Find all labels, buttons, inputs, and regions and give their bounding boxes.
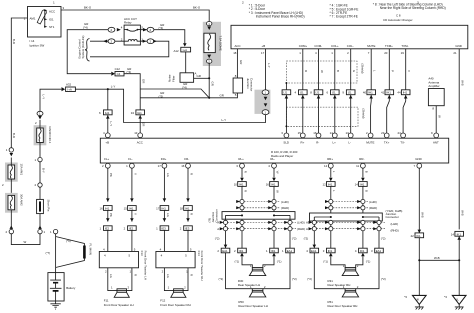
shield box lower (dashed) [286,107,358,126]
junction block IH1 FL- [124,206,137,211]
svg-text:IH1: IH1 [386,91,391,95]
svg-text:B-R: B-R [12,133,16,138]
radio pin ACC [138,133,143,138]
svg-text:Front Door Speaker RH: Front Door Speaker RH [160,303,190,307]
connector oval 2 (coil row right) [147,39,154,44]
CD automatic changer box [231,13,468,55]
svg-text:12: 12 [323,183,327,187]
wires to rear speaker LH [242,256,274,267]
svg-text:RL+: RL+ [238,157,244,161]
svg-text:IH1: IH1 [185,207,190,211]
svg-text:ID1: ID1 [239,249,244,253]
svg-text:CD Automatic Changer: CD Automatic Changer [383,18,413,22]
svg-text:A: A [217,221,219,225]
wire RR+ [330,168,332,248]
C12 output wire to radio ACC column [124,74,140,112]
rear speaker LH [238,268,266,288]
svg-text:*3: *3 [404,295,407,299]
shield box upper (dashed) [286,61,357,83]
radio pin R+ [300,133,305,138]
junction block IH1 MUTE [363,90,376,99]
arrow in J/B [264,97,268,100]
wire FR+ [163,168,165,251]
svg-text:24: 24 [398,131,402,135]
wire changer +B vertical [265,49,267,90]
svg-text:IG1: IG1 [49,17,54,21]
svg-text:Rear Door Speaker LH: Rear Door Speaker LH [238,304,267,308]
arrow up into short pin column [38,226,42,229]
junction block IK1 changer gnd [451,231,464,239]
wires to rear door speaker LH [226,253,291,289]
svg-text:(*2): (*2) [219,277,224,281]
svg-text:13: 13 [134,131,138,135]
svg-text:(RHD): (RHD) [281,206,289,210]
svg-text:14: 14 [330,131,334,135]
svg-text:Junction: Junction [246,78,250,89]
diamond coil right outer [153,40,157,43]
connector C12 [115,67,124,76]
svg-text:+B: +B [105,141,109,145]
junction block IE3 FR- [180,226,193,231]
svg-text:MUTE: MUTE [367,44,375,48]
connector circle [38,183,42,187]
svg-text:ST1: ST1 [49,25,55,29]
svg-text:Front Door Speaker LH: Front Door Speaker LH [104,303,134,307]
svg-text:ACC: ACC [49,9,55,13]
wires to rear speaker RH [331,256,363,267]
connector circle [38,157,42,161]
junction block IH1 FR- [180,206,193,211]
junction block ID1 RR- [355,248,367,256]
svg-text:IJ1: IJ1 [348,91,352,95]
svg-text:GR: GR [220,94,224,98]
diamond contact right [143,28,147,31]
svg-text:(LHD): (LHD) [369,200,377,204]
wire filter output to ACC node [194,77,210,79]
wire L-Y main feed [40,89,61,112]
radio pin TX- [401,133,406,138]
svg-text:(*2): (*2) [304,237,309,241]
svg-text:20: 20 [384,51,388,55]
svg-text:W: W [320,70,324,73]
svg-text:EA1: EA1 [222,249,228,253]
junction block IH1 FR+ [156,206,169,211]
fusible link AM2 (gray) [5,193,23,230]
ground point IK [404,295,426,309]
svg-text:(*5): (*5) [159,94,164,98]
svg-text:L-Y: L-Y [111,85,116,89]
front door speaker RH [160,289,190,307]
svg-text:(*2): (*2) [381,237,386,241]
junction block ID1 RL+ [234,248,246,256]
rear RH connector row 2 (RHD) [325,206,377,210]
svg-text:TX+: TX+ [384,141,390,145]
svg-text:(*2): (*2) [307,277,312,281]
svg-text:IH1: IH1 [105,111,110,115]
wire A12 to noise filter [185,52,187,73]
junction block IH1 RR+ [323,182,336,187]
relay coil row wire from brace [90,40,124,42]
radio pin R- [316,133,321,138]
junction dot ACC node [208,97,210,99]
left column connector circle [9,148,13,152]
svg-text:(*1): (*1) [366,259,371,263]
svg-text:R: R [243,190,247,192]
radio pin TX+ [384,133,389,138]
svg-text:R: R [243,171,247,173]
connector oval J/B top [262,90,269,95]
svg-text:ACC: ACC [137,141,143,145]
GR wire variant *4 (upper) [140,89,209,98]
svg-text:Front Door Tweeter LH: Front Door Tweeter LH [144,251,148,280]
svg-text:16: 16 [313,131,317,135]
svg-text:C4: C4 [117,72,121,76]
junction block IJ1 COL- [342,90,355,99]
junction block ID1 RR+ [323,248,335,256]
junction block IE2 FL+ [100,226,113,231]
wire relay contact output [141,30,185,44]
svg-text:C12: C12 [115,67,121,71]
svg-text:L+: L+ [333,141,337,145]
svg-text:ID1: ID1 [271,249,276,253]
rear RH connector row 3 (LHD) [309,220,399,226]
diamond into relay contact [117,28,121,31]
connector oval 2 (coil row left) [108,39,115,44]
svg-text:GND: GND [415,157,421,161]
fusible link MAIN [83,246,86,259]
svg-text:Relay: Relay [124,21,132,25]
junction block IE2 FL- [124,226,137,231]
wire RR- [362,168,364,248]
connector oval J/B bottom [262,110,269,115]
svg-text:(Shield): (Shield) [361,109,365,119]
wire COM+ [302,49,304,133]
radio pin L- [348,133,353,138]
wire A32 to +B junction and CD changer +B [75,89,265,122]
svg-text:COL+: COL+ [331,44,339,48]
svg-text:16: 16 [266,183,270,187]
wire radio +B branch [107,89,109,133]
svg-text:IH1: IH1 [403,91,408,95]
junction block IH1 FL+ [100,206,113,211]
wire TXM+ [387,49,390,133]
junction block IK1 radio gnd [411,233,424,238]
arrow up left column [10,226,14,229]
svg-text:40: 40 [363,91,367,95]
rear door speaker LH [238,289,267,308]
svg-text:FL-: FL- [128,157,132,161]
svg-text:W: W [275,171,279,174]
radio pin L+ [332,133,337,138]
svg-text:*3: *3 [444,295,447,299]
svg-text:IH1: IH1 [105,207,110,211]
svg-text:W: W [275,190,279,193]
svg-text:PK: PK [109,173,113,177]
noise filter box [168,72,197,83]
svg-text:BK-O: BK-O [193,6,201,10]
svg-text:ANT: ANT [433,141,439,145]
svg-text:Ignition SW: Ignition SW [30,43,45,47]
svg-text:21: 21 [453,51,457,55]
svg-text:IJ1: IJ1 [283,91,287,95]
svg-text:14: 14 [451,233,455,237]
svg-text:RR+: RR+ [327,157,333,161]
svg-text:RL-: RL- [270,157,275,161]
ground point IL [444,295,466,309]
svg-text:17: 17 [156,207,160,211]
svg-text:EA1: EA1 [287,249,293,253]
junction block J/B gray (changer +B path) [255,90,271,114]
svg-text:Near the Right Side of Steerin: Near the Right Side of Steering Column (… [380,6,446,10]
wire RL+ [241,168,243,248]
DOME output wire down to ACC node [208,63,210,98]
wire FR- [187,168,189,251]
junction block IH1 RL- [266,182,279,187]
engine control system wire (to relay contact and C12) [67,30,111,74]
svg-text:+B: +B [262,44,266,48]
svg-text:A12: A12 [174,49,180,53]
GR wire variant *5 (lower) [140,97,209,99]
wire MUTE [370,49,373,133]
svg-text:TX-: TX- [400,141,405,145]
wires box to speaker LH [108,268,132,291]
svg-text:Short Pin: Short Pin [47,200,51,212]
svg-text:B-Y: B-Y [41,168,45,173]
svg-text:IH1: IH1 [328,183,333,187]
junction dot filter/DOME [208,77,210,79]
connector oval 2 (contact row right) [147,27,154,32]
svg-text:R: R [304,70,308,72]
svg-text:R: R [189,213,193,215]
svg-text:IH1: IH1 [368,91,373,95]
svg-text:A32: A32 [66,83,72,87]
svg-text:R-: R- [316,141,319,145]
svg-text:* 7 : Except 2TR-FE: * 7 : Except 2TR-FE [330,15,358,19]
svg-text:IH1: IH1 [137,111,142,115]
svg-text:(LHD): (LHD) [391,222,399,226]
svg-text:FR+: FR+ [161,157,167,161]
arrow into A12 [183,43,187,46]
svg-text:Front Door Tweeter RH: Front Door Tweeter RH [200,251,204,281]
svg-text:Connector: Connector [249,78,253,91]
wire rear door RH right branch [378,221,380,248]
svg-text:I+A: I+A [183,48,187,52]
svg-text:Rear Speaker RH: Rear Speaker RH [328,283,351,287]
mid column connector oval [38,116,42,119]
junction block EA1 RH left [306,248,318,253]
svg-text:IH1: IH1 [129,207,134,211]
svg-text:Filter: Filter [171,76,175,82]
svg-text:42: 42 [411,234,415,238]
svg-text:17: 17 [158,164,162,168]
wire changer GND [458,49,460,230]
rear RH connector row 4 (RHD) [309,227,399,233]
svg-text:ID1: ID1 [328,249,333,253]
svg-text:RR-: RR- [359,157,364,161]
svg-text:L-Y: L-Y [41,95,45,100]
fusible link AM1 (gray) [5,158,23,182]
svg-text:GR: GR [239,60,243,64]
connector oval DOME bottom [207,55,211,59]
svg-text:P: P [391,70,395,72]
svg-text:PK: PK [109,213,113,217]
svg-text:(*4): (*4) [127,70,132,74]
svg-text:GR: GR [142,79,146,83]
wire COM- [318,49,320,133]
svg-text:AM1: AM1 [30,17,36,21]
svg-text:RADIO NO.1: RADIO NO.1 [48,127,52,144]
connector A12 [174,47,191,53]
wire SLD shield drain [285,83,287,133]
svg-text:15A AM1: 15A AM1 [19,164,23,176]
antenna amplifier [428,77,444,111]
svg-text:IH1: IH1 [239,183,244,187]
junction block EA1 right [282,248,294,253]
svg-text:B: B [364,190,368,192]
svg-text:(*2): (*2) [381,277,386,281]
node arrow into A32 [62,87,66,91]
svg-text:Amplifier: Amplifier [428,84,439,88]
connector circle W-link left [9,229,13,233]
arrow up into IH1 [106,115,110,118]
svg-text:34: 34 [131,111,135,115]
svg-text:IK1: IK1 [416,234,421,238]
svg-text:System (1GR-FE): System (1GR-FE) [81,35,85,58]
svg-text:COM+: COM+ [299,44,308,48]
svg-text:2: 2 [242,0,244,4]
fuse DOME [204,33,223,52]
ignition switch SW box [24,6,65,37]
svg-text:(RHD): (RHD) [391,228,399,232]
svg-text:IE2: IE2 [129,227,134,231]
svg-text:16: 16 [181,164,185,168]
junction connector bus box rear LH [222,212,295,220]
svg-text:(*2): (*2) [292,237,297,241]
svg-text:L-: L- [348,141,351,145]
svg-text:W-B: W-B [461,210,465,216]
svg-text:L-Y: L-Y [109,122,113,127]
svg-text:GR: GR [211,82,215,86]
radio pin MUTE [368,133,373,138]
junction block EA1 RH right [371,248,383,253]
rear speaker RH [328,268,359,288]
junction connector bus box rear RH [310,213,383,221]
junction block IH1 TXM+ [381,90,394,99]
svg-text:L-Y: L-Y [222,118,227,122]
svg-text:EA1: EA1 [311,249,317,253]
svg-text:13: 13 [346,131,350,135]
svg-text:(RHD): (RHD) [369,206,377,210]
ground battery [50,301,60,310]
wire FL- [131,168,133,251]
diamond coil right inner [143,40,147,43]
junction block IH1 RR- [355,182,368,187]
svg-text:7.5A DOME: 7.5A DOME [219,36,223,51]
wire rear door RH left branch [313,221,315,248]
diamond coil row left [103,40,107,43]
arrow into fuse [207,26,211,30]
svg-text:W: W [24,240,27,244]
svg-text:Rear Door Speaker RH: Rear Door Speaker RH [328,304,358,308]
svg-text:IK1: IK1 [457,232,462,236]
svg-text:(*2): (*2) [292,277,297,281]
svg-text:V: V [133,213,137,215]
rear RH connector row 1 (LHD) [325,199,377,203]
wire radio GND [418,168,420,295]
wire short pin to battery link [11,214,40,245]
svg-text:Connector: Connector [386,215,399,219]
svg-text:B: B [364,171,368,173]
wire FL+ [107,168,109,251]
svg-text:GND: GND [455,44,461,48]
svg-text:MUTE: MUTE [366,141,374,145]
radio and player box [100,138,448,163]
svg-text:14: 14 [355,183,359,187]
svg-text:TXM-: TXM- [401,44,408,48]
svg-text:GR: GR [197,74,201,78]
svg-text:1: 1 [53,0,55,4]
svg-text:IJ1: IJ1 [316,91,320,95]
svg-text:R+: R+ [301,141,305,145]
svg-text:BK-O: BK-O [84,6,92,10]
svg-text:W: W [438,115,442,118]
svg-text:TXM+: TXM+ [385,44,393,48]
junction block IJ1 COM+ [295,90,308,99]
svg-text:V: V [407,70,411,72]
svg-text:(*4): (*4) [182,85,187,89]
svg-text:SLD: SLD [283,141,289,145]
svg-text:EA1: EA1 [376,249,382,253]
svg-text:18: 18 [233,51,237,55]
GR wire to CD changer ACC [209,93,237,98]
ACC CUT relay box [121,17,144,45]
svg-text:B-R: B-R [12,39,16,44]
svg-text:15: 15 [298,131,302,135]
svg-text:W-B: W-B [461,80,465,86]
relay coil return wire [90,41,169,57]
svg-text:V: V [133,173,137,175]
wire COL- [350,49,352,133]
svg-text:Instrument Panel Brace RH (RHD: Instrument Panel Brace RH (RHD) [256,15,305,19]
front door speaker RH assembly box [156,251,204,281]
svg-text:(RHD): (RHD) [297,227,305,231]
junction block IE3 FR+ [156,226,169,231]
wire antenna to radio ANT [435,106,437,134]
junction connector annotation (*8) [207,209,218,222]
svg-text:R: R [133,274,137,276]
svg-text:GR: GR [142,122,146,126]
wire changer GND lower [458,236,460,295]
junction block IH1 TXM- [397,90,410,99]
svg-text:COL-: COL- [347,44,354,48]
rear LH connector row 1 (LHD) [236,199,289,203]
svg-text:(LHD): (LHD) [281,200,289,204]
wire between fuses [10,179,12,193]
junction block IJ1 COM- [310,90,323,99]
junction block IH1 (ACC) [131,110,145,115]
svg-text:I+A: I+A [67,88,71,92]
svg-text:19: 19 [401,51,405,55]
wire rear door LH right branch [289,219,291,248]
svg-text:FL+: FL+ [104,157,109,161]
svg-text:A: A [217,227,219,231]
wire RL- [273,168,275,248]
wire rear door LH left branch [225,219,227,248]
svg-text:(*2): (*2) [215,237,220,241]
svg-text:R: R [189,274,193,276]
junction block IH1 RL+ [234,182,247,187]
svg-text:(*4): (*4) [83,25,88,29]
